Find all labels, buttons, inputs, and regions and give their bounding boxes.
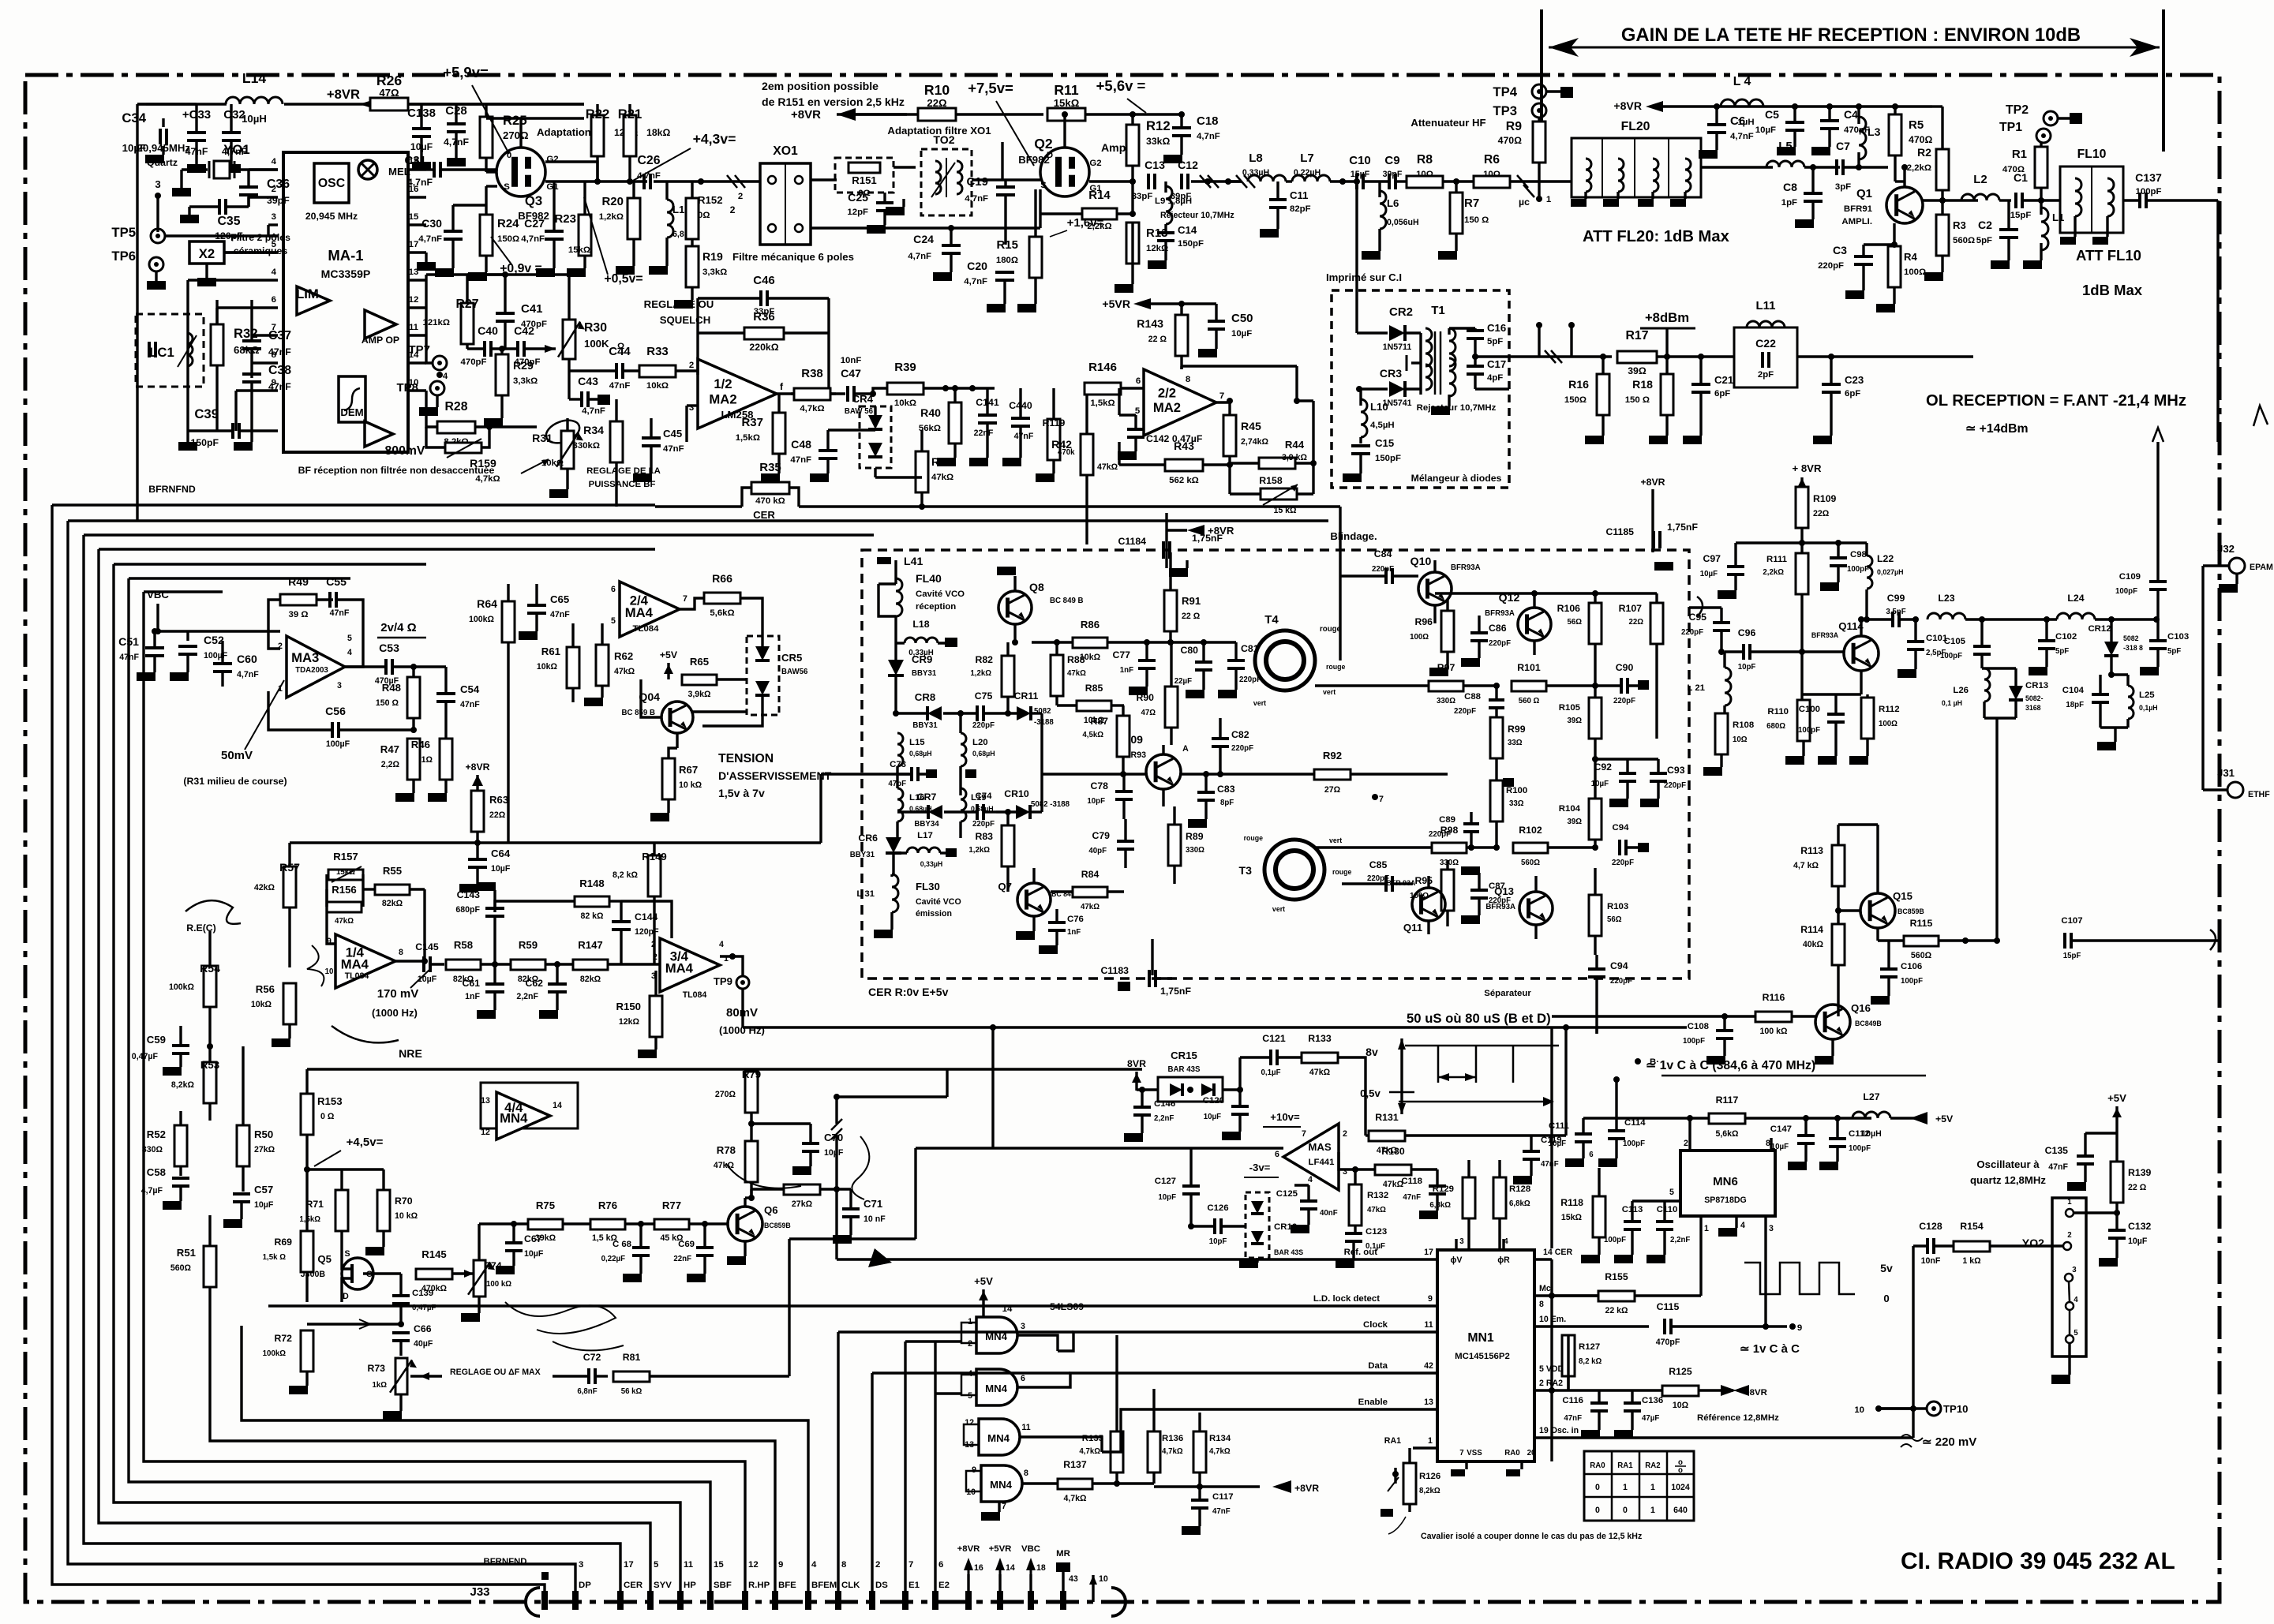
wire MA4a fb xyxy=(327,889,335,944)
diode CR3 xyxy=(1389,381,1405,397)
capacitor C34 xyxy=(159,129,162,144)
resistor R83 xyxy=(1002,825,1014,866)
svg-text:220pF: 220pF xyxy=(972,721,995,730)
resistor R152 xyxy=(686,198,699,239)
capacitor C71 xyxy=(842,1207,860,1211)
svg-text:10Ω: 10Ω xyxy=(1733,735,1748,744)
resistor R4 xyxy=(1888,246,1901,287)
svg-text:J32: J32 xyxy=(2217,543,2235,555)
IC MA-1 MC3359P box xyxy=(283,152,408,452)
capacitor C62 xyxy=(548,982,567,986)
wire 1984 vertical xyxy=(1564,1027,1567,1136)
bus wire 8 xyxy=(242,1326,808,1602)
svg-text:22Ω: 22Ω xyxy=(1813,509,1830,518)
svg-text:220pF: 220pF xyxy=(1231,744,1253,753)
capacitor C31 xyxy=(433,162,436,178)
svg-text:R99: R99 xyxy=(1508,724,1526,735)
svg-text:L 31: L 31 xyxy=(856,889,875,899)
svg-text:TP3: TP3 xyxy=(1493,103,1517,118)
svg-text:REGLAGE OU: REGLAGE OU xyxy=(644,298,714,310)
svg-text:22 Ω: 22 Ω xyxy=(1182,612,1201,621)
opamp 2/4 MA4 xyxy=(620,582,680,637)
transistor Q3 BF982 xyxy=(496,148,545,196)
handwriting mark1 xyxy=(307,945,324,986)
svg-text:L23: L23 xyxy=(1938,593,1954,604)
svg-text:T3: T3 xyxy=(1239,864,1253,877)
wire R66 to CR5 xyxy=(702,715,762,726)
svg-text:S: S xyxy=(1040,181,1047,190)
FL10 coils xyxy=(2075,178,2081,216)
filter TO2 dashed box xyxy=(921,149,972,215)
svg-text:100K: 100K xyxy=(584,338,609,350)
capacitor C68 xyxy=(632,1246,650,1249)
svg-text:R23: R23 xyxy=(554,212,576,226)
testpoint TP6 xyxy=(149,257,163,271)
svg-text:R117: R117 xyxy=(1716,1095,1739,1106)
svg-text:3,3kΩ: 3,3kΩ xyxy=(513,376,538,386)
svg-text:BF982: BF982 xyxy=(1018,154,1050,166)
wire +8VR rail q2 xyxy=(837,113,907,115)
svg-text:47nF: 47nF xyxy=(609,381,631,391)
wire MAS route xyxy=(991,1027,994,1148)
resistor R9 xyxy=(1533,122,1545,163)
capacitor C1183 xyxy=(1148,970,1151,987)
svg-text:BF réception non filtrée non d: BF réception non filtrée non desaccentué… xyxy=(298,465,495,476)
svg-text:C108: C108 xyxy=(1688,1022,1709,1031)
svg-text:C38: C38 xyxy=(268,364,291,377)
svg-text:33pF: 33pF xyxy=(1132,192,1153,201)
svg-text:C13: C13 xyxy=(1144,159,1165,171)
resistor R10 xyxy=(918,108,956,121)
svg-text:CER: CER xyxy=(753,509,775,521)
capacitor C69 xyxy=(696,1246,714,1249)
svg-text:C24: C24 xyxy=(913,233,934,245)
svg-text:T1: T1 xyxy=(1431,304,1445,317)
svg-text:R103: R103 xyxy=(1607,902,1628,911)
capacitor C17 xyxy=(1467,365,1484,368)
svg-text:8: 8 xyxy=(841,1560,846,1570)
resistor R102 xyxy=(1513,843,1548,853)
capacitor C121 xyxy=(1269,1050,1272,1065)
resistor R106 xyxy=(1589,603,1602,644)
svg-text:100pF: 100pF xyxy=(1798,726,1820,735)
resistor R46 xyxy=(440,739,452,780)
svg-text:C126: C126 xyxy=(1207,1203,1228,1213)
svg-text:CR11: CR11 xyxy=(1014,690,1039,702)
resistor R131 xyxy=(1369,1131,1405,1141)
testpoint TP2 xyxy=(2044,111,2058,125)
FL20 internal wires xyxy=(1602,138,1603,197)
svg-text:R151: R151 xyxy=(852,174,877,186)
svg-text:22Ω: 22Ω xyxy=(489,810,506,820)
wire MA2b feedback xyxy=(1180,366,1182,369)
inductor L4 xyxy=(1721,99,1763,107)
capacitor C55 xyxy=(328,592,332,608)
svg-text:47nF: 47nF xyxy=(1014,432,1034,441)
svg-text:470Ω: 470Ω xyxy=(1909,134,1933,145)
capacitor C10 xyxy=(1355,174,1358,189)
capacitor C30 xyxy=(444,230,463,233)
resistor R99 xyxy=(1490,717,1503,758)
svg-text:CR5: CR5 xyxy=(781,652,802,664)
svg-text:(1000 Hz): (1000 Hz) xyxy=(372,1007,418,1019)
svg-text:18kΩ: 18kΩ xyxy=(646,127,671,138)
svg-text:L9 1,8µH: L9 1,8µH xyxy=(1155,196,1192,206)
capacitor C96 xyxy=(1742,644,1745,660)
svg-text:AMP OP: AMP OP xyxy=(362,335,399,346)
svg-text:0,1µH: 0,1µH xyxy=(2139,704,2158,712)
svg-text:R86: R86 xyxy=(1081,619,1100,631)
resistor R11 xyxy=(1047,108,1085,121)
resistor R81 xyxy=(613,1371,650,1382)
svg-text:C11: C11 xyxy=(1290,189,1308,201)
resistor R111 xyxy=(1796,553,1808,594)
svg-text:+8dBm: +8dBm xyxy=(1645,310,1689,325)
svg-text:R80: R80 xyxy=(792,1165,811,1177)
svg-text:C82: C82 xyxy=(1231,729,1249,740)
svg-text:4,7nF: 4,7nF xyxy=(908,252,931,261)
capacitor C19 xyxy=(996,185,1015,189)
capacitor C101 xyxy=(1907,640,1924,643)
inductor L6 xyxy=(1380,191,1386,229)
svg-text:R5: R5 xyxy=(1909,118,1924,132)
svg-text:TP10: TP10 xyxy=(1943,1403,1969,1415)
svg-text:C53: C53 xyxy=(379,642,399,654)
svg-text:R20: R20 xyxy=(601,195,624,208)
svg-text:R109: R109 xyxy=(1813,493,1837,504)
svg-text:6: 6 xyxy=(611,585,616,594)
wire OL to right edge xyxy=(1914,355,1973,357)
wire rail 688 xyxy=(1736,541,1867,544)
svg-text:Q3: Q3 xyxy=(525,193,542,208)
svg-text:4,7kΩ: 4,7kΩ xyxy=(1079,1447,1100,1456)
capacitor C57 xyxy=(233,1192,250,1196)
svg-text:R41: R41 xyxy=(931,455,952,468)
capacitor C142 xyxy=(1127,428,1144,431)
svg-text:33kΩ: 33kΩ xyxy=(1146,136,1171,147)
wire mixer top entry xyxy=(1358,205,1360,208)
svg-text:39 Ω: 39 Ω xyxy=(289,610,309,619)
svg-text:BFR93A: BFR93A xyxy=(1811,631,1839,639)
resistor R23 xyxy=(579,215,591,256)
svg-text:C30: C30 xyxy=(421,217,442,230)
wire Q3 G1 row xyxy=(545,180,647,182)
wire 1068 bus xyxy=(290,841,702,844)
svg-text:C18: C18 xyxy=(1197,114,1219,128)
capacitor C76 xyxy=(1048,921,1066,924)
svg-text:Adaptation: Adaptation xyxy=(537,126,591,138)
svg-text:2: 2 xyxy=(875,1560,880,1570)
svg-text:100kΩ: 100kΩ xyxy=(169,982,195,992)
svg-text:C43: C43 xyxy=(578,375,598,387)
pin 10 xyxy=(1092,1575,1094,1602)
svg-text:15kΩ: 15kΩ xyxy=(1561,1213,1583,1222)
resistor R92 xyxy=(1314,769,1351,780)
svg-text:560Ω: 560Ω xyxy=(170,1263,192,1273)
resistor R22 xyxy=(591,115,604,156)
svg-text:10: 10 xyxy=(325,967,334,976)
svg-text:XO1: XO1 xyxy=(773,144,798,158)
AND gate MN4 a xyxy=(976,1317,1017,1353)
resistor R5 xyxy=(1889,114,1901,155)
svg-text:BBY34: BBY34 xyxy=(914,820,939,829)
capacitor C32 xyxy=(222,131,241,134)
svg-text:2 RA2: 2 RA2 xyxy=(1539,1379,1563,1388)
svg-text:5 VDD: 5 VDD xyxy=(1539,1364,1564,1374)
svg-text:640: 640 xyxy=(1673,1506,1688,1515)
svg-text:Imprimé sur C.I: Imprimé sur C.I xyxy=(1326,271,1402,283)
svg-text:150Ω: 150Ω xyxy=(1564,395,1587,405)
svg-text:4,7nF: 4,7nF xyxy=(1730,132,1754,141)
svg-text:MEL: MEL xyxy=(388,166,410,178)
svg-text:Q15: Q15 xyxy=(1893,890,1912,902)
resistor R104 xyxy=(1589,799,1602,840)
resistor R42 xyxy=(1081,434,1093,475)
resistor R49 xyxy=(280,594,317,605)
svg-text:MA3: MA3 xyxy=(291,650,319,665)
resistor R29 xyxy=(496,354,508,395)
resistor R1 xyxy=(2035,147,2047,188)
svg-text:2/2: 2/2 xyxy=(1158,385,1176,400)
svg-text:R36: R36 xyxy=(753,310,775,324)
svg-text:µc: µc xyxy=(1519,196,1530,208)
svg-text:NRE: NRE xyxy=(399,1047,422,1060)
resistor R129 xyxy=(1463,1177,1475,1218)
svg-text:3: 3 xyxy=(2072,1266,2077,1274)
svg-text:RA1: RA1 xyxy=(1384,1436,1401,1446)
svg-text:L24: L24 xyxy=(2067,593,2084,604)
opamp MA2 first half xyxy=(698,359,777,428)
svg-text:L1: L1 xyxy=(2052,211,2064,223)
svg-text:REGLAGE OU ΔF MAX: REGLAGE OU ΔF MAX xyxy=(450,1368,541,1377)
svg-text:14 CER: 14 CER xyxy=(1543,1248,1572,1257)
svg-text:470pF: 470pF xyxy=(461,357,487,367)
svg-text:+8VR: +8VR xyxy=(1294,1483,1319,1494)
transistor Q6 xyxy=(728,1207,762,1241)
capacitor C73 xyxy=(910,767,913,781)
resistor R57 xyxy=(283,866,296,907)
filter FL20 box xyxy=(1572,138,1701,197)
inductor L18 xyxy=(905,638,938,643)
inductor L12 xyxy=(667,200,673,238)
svg-text:R55: R55 xyxy=(383,865,402,877)
svg-text:1: 1 xyxy=(1650,1506,1655,1515)
svg-text:50mV: 50mV xyxy=(221,749,253,762)
MN1 pin 13 xyxy=(1413,1408,1437,1410)
svg-text:470Ω: 470Ω xyxy=(2002,165,2025,174)
svg-text:VSS: VSS xyxy=(1467,1449,1482,1457)
audio triangle xyxy=(365,421,393,447)
svg-text:C27: C27 xyxy=(524,217,545,230)
svg-text:C120: C120 xyxy=(1203,1096,1224,1106)
svg-text:R119: R119 xyxy=(1043,417,1066,428)
svg-text:560Ω: 560Ω xyxy=(1911,951,1932,960)
svg-text:Q16: Q16 xyxy=(1851,1002,1871,1014)
capacitor C18 xyxy=(1172,126,1191,129)
resistor R47 xyxy=(407,739,420,780)
svg-text:5: 5 xyxy=(2074,1329,2078,1338)
svg-text:0,22µH: 0,22µH xyxy=(1294,168,1321,178)
svg-text:10µF: 10µF xyxy=(491,864,511,874)
svg-text:100pF: 100pF xyxy=(1901,977,1923,986)
svg-text:C14: C14 xyxy=(1178,224,1197,236)
svg-text:150 Ω: 150 Ω xyxy=(1625,395,1650,405)
resistor R149 xyxy=(648,855,661,896)
capacitor C132 xyxy=(2108,1229,2126,1232)
capacitor C125 xyxy=(1300,1199,1317,1203)
svg-text:220pF: 220pF xyxy=(1489,639,1511,648)
svg-text:9: 9 xyxy=(1797,1323,1802,1333)
svg-text:C132: C132 xyxy=(2128,1221,2152,1232)
resistor R63 xyxy=(471,791,484,832)
svg-text:C106: C106 xyxy=(1901,962,1922,971)
svg-text:10kΩ: 10kΩ xyxy=(894,399,916,408)
wire into XO1 xyxy=(732,180,760,182)
svg-text:R3: R3 xyxy=(1953,219,1966,231)
svg-text:R113: R113 xyxy=(1800,845,1823,856)
svg-text:Cavité VCO: Cavité VCO xyxy=(916,589,965,599)
bus top y715 xyxy=(114,563,426,565)
inductor L5 xyxy=(1766,161,1804,167)
svg-text:SP8718DG: SP8718DG xyxy=(1704,1196,1747,1205)
svg-text:C34: C34 xyxy=(122,110,146,125)
svg-text:C45: C45 xyxy=(663,428,682,440)
svg-text:MA4: MA4 xyxy=(341,957,369,972)
svg-text:BFR91: BFR91 xyxy=(1844,204,1873,214)
svg-text:vert: vert xyxy=(1272,905,1285,913)
resistor R6 xyxy=(1474,176,1510,188)
svg-text:R37: R37 xyxy=(741,416,763,429)
label +8VR c1184 xyxy=(1187,525,1204,536)
svg-text:Cavalier isolé a couper do: Cavalier isolé a couper donne le cas du … xyxy=(1421,1532,1642,1541)
svg-text:3: 3 xyxy=(579,1560,583,1570)
diode CR12 xyxy=(2104,642,2119,656)
svg-text:18pF: 18pF xyxy=(2066,701,2084,709)
capacitor C38 xyxy=(242,372,261,376)
svg-text:S: S xyxy=(344,1249,350,1259)
svg-text:OL RECEPTION = F.ANT -21,4 MHz: OL RECEPTION = F.ANT -21,4 MHz xyxy=(1926,392,2186,410)
svg-text:8,2 kΩ: 8,2 kΩ xyxy=(1579,1357,1602,1366)
inductor L19 xyxy=(961,788,966,821)
svg-text:220pF: 220pF xyxy=(1610,977,1632,986)
svg-text:R98: R98 xyxy=(1440,825,1459,836)
inductor L25 xyxy=(2128,686,2134,719)
svg-text:R155: R155 xyxy=(1605,1271,1628,1282)
svg-text:C4: C4 xyxy=(1844,108,1858,121)
svg-text:3: 3 xyxy=(272,212,276,222)
svg-text:47kΩ: 47kΩ xyxy=(931,473,953,482)
wire Q114 bias xyxy=(1799,649,1805,655)
svg-text:8: 8 xyxy=(399,948,403,957)
svg-text:82pF: 82pF xyxy=(1290,204,1311,214)
svg-text:270Ω: 270Ω xyxy=(715,1090,736,1099)
svg-text:L 21: L 21 xyxy=(1687,683,1705,693)
capacitor C88 xyxy=(1489,698,1504,702)
svg-text:FL20: FL20 xyxy=(1621,120,1650,133)
svg-text:R12: R12 xyxy=(1146,118,1171,133)
capacitor C51 xyxy=(145,646,164,649)
svg-text:R146: R146 xyxy=(1088,361,1117,374)
svg-text:R102: R102 xyxy=(1519,825,1542,836)
resistor R79 xyxy=(745,1072,758,1113)
svg-text:CR7: CR7 xyxy=(917,791,937,803)
capacitor C77 xyxy=(1138,659,1156,662)
CR4 diodes xyxy=(868,415,882,429)
svg-text:≃ 1v C à C: ≃ 1v C à C xyxy=(1740,1342,1800,1356)
wire 1vcac line xyxy=(1615,1080,1617,1118)
svg-text:MAS: MAS xyxy=(1308,1141,1332,1153)
svg-text:C36: C36 xyxy=(267,178,290,191)
capacitor C145 xyxy=(422,956,425,972)
resistor R43 xyxy=(1165,459,1203,471)
inductor L14 xyxy=(226,97,283,104)
svg-text:L20: L20 xyxy=(972,738,988,747)
svg-text:C115: C115 xyxy=(1657,1301,1680,1312)
svg-text:39Ω: 39Ω xyxy=(1567,818,1582,826)
svg-text:12: 12 xyxy=(409,295,419,305)
svg-text:R95: R95 xyxy=(1414,875,1433,886)
svg-text:470Ω: 470Ω xyxy=(1498,135,1523,146)
svg-text:C15: C15 xyxy=(1375,437,1394,449)
resistor R67 xyxy=(662,758,675,799)
resistor R110 xyxy=(1797,700,1810,741)
svg-text:10µF: 10µF xyxy=(524,1249,544,1259)
testpoint TP8 xyxy=(430,381,444,395)
resistor R15 xyxy=(1029,237,1042,278)
svg-text:R104: R104 xyxy=(1559,804,1581,814)
svg-text:1,75nF: 1,75nF xyxy=(1160,986,1191,997)
node 3 stub xyxy=(155,193,161,199)
svg-text:560 Ω: 560 Ω xyxy=(1519,697,1540,705)
handwriting NRE xyxy=(332,1026,399,1042)
svg-text:6,8kΩ: 6,8kΩ xyxy=(1429,1201,1451,1210)
svg-text:1: 1 xyxy=(1650,1483,1655,1492)
bus wire 3 xyxy=(99,549,650,1602)
resistor R87 xyxy=(1117,716,1130,757)
svg-text:10µH: 10µH xyxy=(1861,1129,1882,1139)
capacitor C123 xyxy=(1345,1232,1362,1235)
wire MA1 pins left xyxy=(249,168,278,170)
svg-text:CR6: CR6 xyxy=(858,833,878,844)
diode CR8 xyxy=(927,706,942,720)
svg-text:C52: C52 xyxy=(204,634,224,646)
MN1 pin19 osc xyxy=(1534,1436,1913,1439)
svg-text:C127: C127 xyxy=(1155,1177,1176,1186)
capacitor C84 xyxy=(1384,568,1388,584)
svg-text:C94: C94 xyxy=(1613,823,1630,833)
svg-text:CR3: CR3 xyxy=(1380,367,1402,380)
resistor R48 xyxy=(407,677,420,718)
capacitor C33 xyxy=(187,131,206,134)
svg-text:CR8: CR8 xyxy=(915,691,935,703)
svg-text:0,33µH: 0,33µH xyxy=(908,649,933,657)
capacitor C143 xyxy=(485,907,504,910)
svg-text:C60: C60 xyxy=(237,653,257,665)
svg-text:TP6: TP6 xyxy=(111,249,136,264)
svg-text:L11: L11 xyxy=(1755,299,1775,312)
wire Q3 source xyxy=(486,185,497,187)
resistor R119 xyxy=(1047,419,1060,460)
svg-text:R58: R58 xyxy=(454,939,473,951)
capacitor C138 xyxy=(412,127,431,130)
capacitor C79 xyxy=(1117,840,1134,843)
opamp MA2 second half xyxy=(1144,369,1216,436)
svg-text:220pF: 220pF xyxy=(1613,697,1635,705)
capacitor C114 xyxy=(1608,1129,1625,1132)
svg-text:MN4: MN4 xyxy=(990,1479,1013,1491)
svg-text:680Ω: 680Ω xyxy=(1766,722,1785,731)
diode CR7 xyxy=(928,805,942,819)
